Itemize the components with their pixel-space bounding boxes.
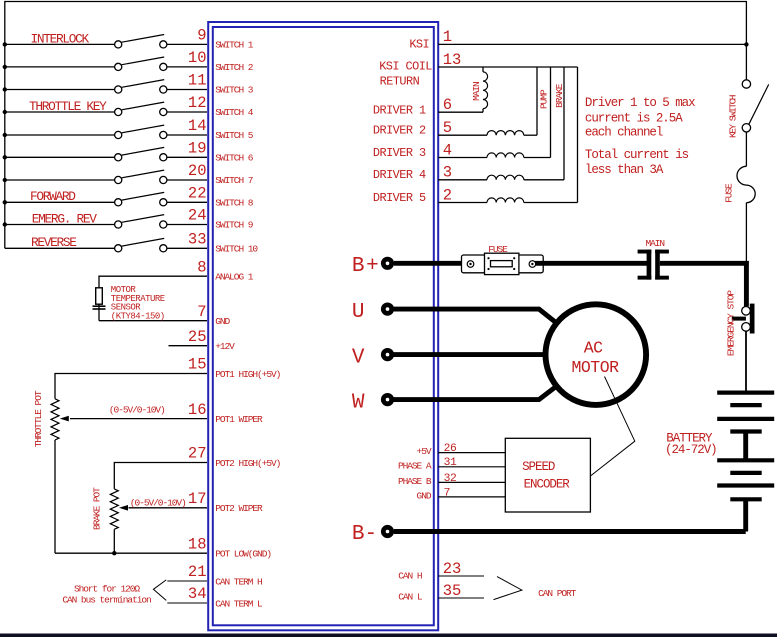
- svg-text:DRIVER 2: DRIVER 2: [373, 124, 426, 138]
- svg-text:12: 12: [188, 94, 207, 112]
- svg-text:9: 9: [197, 27, 206, 45]
- svg-text:(KTY84-150): (KTY84-150): [111, 311, 165, 321]
- svg-text:26: 26: [444, 443, 457, 455]
- svg-text:U: U: [352, 301, 365, 324]
- svg-text:FUSE: FUSE: [724, 183, 735, 203]
- svg-text:14: 14: [188, 117, 207, 135]
- svg-text:ENCODER: ENCODER: [524, 478, 571, 492]
- svg-text:(24-72V): (24-72V): [665, 443, 717, 457]
- svg-text:+12V: +12V: [215, 341, 235, 352]
- svg-text:Short for 120Ω: Short for 120Ω: [74, 584, 140, 595]
- svg-text:25: 25: [188, 328, 207, 346]
- svg-text:3: 3: [443, 164, 452, 182]
- svg-text:RETURN: RETURN: [380, 74, 420, 88]
- svg-text:POT LOW(GND): POT LOW(GND): [215, 549, 271, 560]
- svg-text:13: 13: [443, 51, 462, 69]
- svg-text:Total current is: Total current is: [585, 148, 689, 162]
- svg-text:(0-5V/0-10V): (0-5V/0-10V): [130, 498, 186, 509]
- svg-text:current is 2.5A: current is 2.5A: [585, 111, 683, 125]
- svg-text:17: 17: [188, 490, 207, 508]
- svg-text:KSI: KSI: [409, 38, 429, 52]
- svg-text:7: 7: [444, 487, 450, 499]
- svg-text:DRIVER 3: DRIVER 3: [373, 146, 426, 160]
- svg-text:MOTOR: MOTOR: [571, 358, 619, 377]
- svg-text:4: 4: [443, 141, 452, 159]
- svg-text:B+: B+: [352, 255, 380, 278]
- svg-text:35: 35: [443, 582, 462, 600]
- svg-text:33: 33: [188, 231, 207, 249]
- svg-text:SWITCH 2: SWITCH 2: [215, 62, 254, 73]
- svg-text:SWITCH 7: SWITCH 7: [215, 175, 253, 186]
- svg-text:7: 7: [197, 303, 206, 321]
- svg-text:CAN H: CAN H: [398, 570, 422, 581]
- svg-text:GND: GND: [417, 490, 432, 501]
- svg-text:31: 31: [444, 457, 457, 469]
- svg-text:6: 6: [443, 96, 452, 114]
- svg-text:B-: B-: [352, 523, 377, 546]
- svg-text:THROTTLE KEY: THROTTLE KEY: [29, 99, 107, 114]
- svg-text:POT2 WIPER: POT2 WIPER: [215, 503, 263, 514]
- svg-text:INTERLOCK: INTERLOCK: [31, 31, 90, 46]
- svg-text:(0-5V/0-10V): (0-5V/0-10V): [109, 404, 165, 415]
- svg-text:34: 34: [188, 585, 207, 603]
- svg-text:16: 16: [188, 401, 207, 419]
- svg-text:SWITCH 10: SWITCH 10: [215, 244, 258, 255]
- svg-text:CAN bus termination: CAN bus termination: [62, 595, 151, 606]
- svg-text:GND: GND: [215, 316, 230, 327]
- svg-text:SPEED: SPEED: [522, 460, 555, 474]
- svg-text:FORWARD: FORWARD: [30, 189, 76, 204]
- svg-text:2: 2: [443, 186, 452, 204]
- svg-text:less than 3A: less than 3A: [585, 163, 664, 177]
- svg-text:SWITCH 4: SWITCH 4: [215, 107, 254, 118]
- svg-text:DRIVER 4: DRIVER 4: [373, 168, 426, 182]
- svg-text:DRIVER 5: DRIVER 5: [373, 191, 426, 205]
- svg-text:32: 32: [444, 473, 457, 485]
- svg-text:27: 27: [188, 445, 207, 463]
- svg-text:PHASE B: PHASE B: [398, 476, 432, 487]
- svg-text:MAIN: MAIN: [471, 82, 482, 101]
- svg-text:22: 22: [188, 185, 207, 203]
- svg-text:15: 15: [188, 356, 207, 374]
- svg-text:23: 23: [443, 560, 462, 578]
- svg-text:ANALOG 1: ANALOG 1: [215, 272, 254, 283]
- svg-text:11: 11: [188, 72, 207, 90]
- svg-text:BRAKE POT: BRAKE POT: [91, 487, 102, 530]
- svg-text:CAN L: CAN L: [398, 591, 423, 602]
- svg-text:SWITCH 5: SWITCH 5: [215, 130, 254, 141]
- svg-text:DRIVER 1: DRIVER 1: [373, 104, 426, 118]
- svg-text:20: 20: [188, 162, 207, 180]
- svg-text:PHASE A: PHASE A: [398, 460, 432, 471]
- svg-text:BRAKE: BRAKE: [554, 83, 565, 108]
- svg-text:SWITCH 1: SWITCH 1: [215, 40, 254, 51]
- svg-text:CAN PORT: CAN PORT: [538, 588, 577, 599]
- svg-text:KSI COIL: KSI COIL: [379, 60, 432, 74]
- svg-text:18: 18: [188, 535, 207, 553]
- svg-text:1: 1: [443, 28, 452, 46]
- svg-text:24: 24: [188, 207, 207, 225]
- svg-text:FUSE: FUSE: [488, 244, 508, 255]
- svg-text:POT1 WIPER: POT1 WIPER: [215, 414, 263, 425]
- svg-text:Driver 1 to 5 max: Driver 1 to 5 max: [585, 96, 695, 110]
- svg-text:CAN TERM L: CAN TERM L: [215, 598, 263, 609]
- svg-text:SWITCH 8: SWITCH 8: [215, 198, 254, 209]
- svg-text:W: W: [352, 391, 365, 414]
- svg-text:AC: AC: [584, 339, 603, 358]
- svg-text:21: 21: [188, 563, 207, 581]
- svg-text:V: V: [352, 346, 365, 369]
- svg-text:SWITCH 6: SWITCH 6: [215, 153, 254, 164]
- svg-text:5: 5: [443, 119, 452, 137]
- svg-text:KEY SWITCH: KEY SWITCH: [728, 95, 739, 138]
- svg-text:MAIN: MAIN: [645, 238, 664, 249]
- svg-text:SWITCH 3: SWITCH 3: [215, 85, 254, 96]
- svg-text:8: 8: [197, 258, 206, 276]
- svg-text:+5V: +5V: [417, 446, 432, 457]
- svg-text:SWITCH 9: SWITCH 9: [215, 220, 254, 231]
- svg-text:each channel: each channel: [585, 126, 663, 140]
- svg-text:CAN TERM H: CAN TERM H: [215, 576, 262, 587]
- svg-text:EMERG. REV: EMERG. REV: [32, 212, 97, 227]
- svg-text:19: 19: [188, 140, 207, 158]
- svg-text:POT1 HIGH(+5V): POT1 HIGH(+5V): [215, 369, 280, 380]
- svg-text:EMERGENCY STOP: EMERGENCY STOP: [725, 290, 736, 356]
- svg-text:PUMP: PUMP: [538, 89, 549, 109]
- svg-text:10: 10: [188, 49, 207, 67]
- svg-text:THROTTLE POT: THROTTLE POT: [33, 390, 44, 447]
- svg-text:REVERSE: REVERSE: [31, 235, 77, 250]
- svg-text:POT2 HIGH(+5V): POT2 HIGH(+5V): [215, 458, 280, 469]
